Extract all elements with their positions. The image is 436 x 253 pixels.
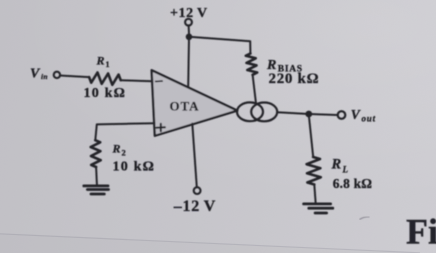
ground (right, load) [304,204,333,213]
wire +12V rail down to OTA top edge [187,37,190,87]
label R2 [112,142,126,158]
resistor RBIAS [246,54,257,75]
terminal Vin [54,72,60,78]
wire current mirror to output node [277,112,309,114]
label 6.8 kOhm [333,176,373,191]
wire RBIAS to OTA output current mirror [253,75,256,103]
ground (left) [84,186,109,194]
label 220 kOhm [269,71,320,87]
junction dot at +12V rail [186,34,193,41]
op-amp OTA body [152,70,238,136]
resistor R1 [89,73,121,85]
wire output node down to RL [309,117,313,157]
wire Vin to R1 [60,76,89,78]
label 10 kOhm (R2) [113,159,156,174]
wire OTA bottom edge to -12V terminal [192,124,197,188]
OTA output current-source circle (left) [237,102,263,121]
terminal +12V [185,19,192,26]
resistor R2 [91,140,101,167]
junction dot at output node [305,111,312,118]
wire +12V rail to RBIAS corner [189,37,250,54]
label RBIAS [266,58,303,75]
OTA output current-source circle (right) [251,103,277,122]
label RL [331,157,349,175]
node +12V supply label [170,6,208,21]
label R1 [96,54,110,70]
wire output node to Vout terminal [309,114,338,115]
wire OTA plus input to R2 [95,123,154,140]
minus sign at inverting input [156,80,163,82]
caption fragment "Fi" [406,212,436,252]
label 10 kOhm (R1) [84,86,127,101]
resistor RL [307,157,321,185]
faint smudge mark on paper [360,217,370,220]
node -12V supply label [173,198,216,215]
node Vout label [351,107,376,124]
node Vin label [30,66,48,81]
wire R1 to OTA inverting input [121,80,153,81]
plus sign at non-inverting input [156,124,165,132]
terminal -12V [194,187,201,194]
wire +12V terminal to junction [188,25,190,34]
wire RL to ground [314,185,315,203]
label OTA [170,99,200,114]
wire R2 to ground [95,167,98,185]
terminal Vout [338,111,346,119]
